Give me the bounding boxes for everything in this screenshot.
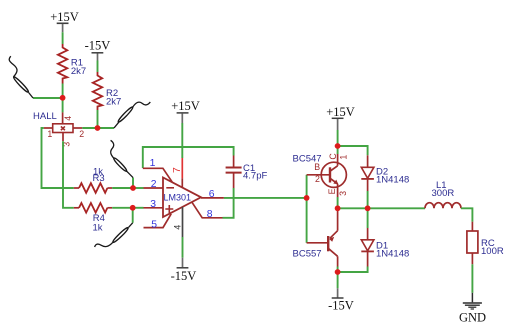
wire HALL pin3 down to R4 row bbox=[63, 141, 74, 208]
capacitor C1 bbox=[226, 156, 268, 189]
-15V supply (R2) bbox=[85, 39, 111, 61]
wire base node up to BC547 base bbox=[306, 175, 308, 198]
svg-text:1: 1 bbox=[150, 158, 156, 169]
wire node to op-amp pin2 bbox=[133, 187, 144, 189]
wire node down to probe 4 bbox=[132, 208, 134, 223]
svg-text:-15V: -15V bbox=[171, 269, 197, 283]
svg-text:7: 7 bbox=[172, 167, 183, 173]
transistor Q1 BC547 bbox=[293, 149, 349, 209]
wire L1 to RC bbox=[461, 208, 472, 221]
-15V supply transistor bbox=[328, 288, 354, 312]
probe squiggle 1 bbox=[9, 56, 33, 98]
diode D1 1N4148 bbox=[361, 208, 409, 266]
svg-text:+15V: +15V bbox=[171, 99, 200, 113]
probe squiggle 2 bbox=[114, 102, 150, 128]
op-amp pin 4 lead bbox=[182, 207, 184, 237]
wire -15V to R2 bbox=[97, 61, 99, 73]
resistor R2 bbox=[93, 72, 122, 110]
svg-text:+15V: +15V bbox=[50, 10, 79, 24]
-15V supply op-amp bbox=[171, 258, 197, 284]
svg-text:B: B bbox=[314, 162, 320, 172]
wire RC to GND bbox=[471, 264, 473, 293]
wire R4 to node bbox=[112, 207, 133, 209]
wire node left to probe bbox=[33, 97, 63, 99]
resistor RC 100R bbox=[467, 222, 504, 265]
resistor R1 bbox=[58, 44, 86, 84]
svg-text:-15V: -15V bbox=[328, 299, 354, 313]
svg-text:E: E bbox=[327, 188, 337, 194]
op-amp pin 1 lead bbox=[143, 158, 173, 182]
HALL sensor X1 bbox=[33, 111, 84, 147]
op-amp pin 3 lead bbox=[144, 207, 163, 209]
inductor L1 300R bbox=[425, 180, 461, 208]
wire node up to probe 3 bbox=[132, 178, 134, 188]
wire node to op-amp pin3 bbox=[133, 207, 144, 209]
probe squiggle 3 bbox=[111, 140, 133, 177]
wire diode node to L1 bbox=[368, 207, 425, 209]
svg-text:-15V: -15V bbox=[85, 39, 111, 53]
svg-text:300R: 300R bbox=[432, 188, 455, 199]
wire C1 to output bbox=[233, 188, 235, 198]
wire D1 bottom to collector node bbox=[338, 267, 368, 273]
diode D2 1N4148 bbox=[361, 155, 409, 191]
svg-text:2k7: 2k7 bbox=[71, 66, 86, 77]
svg-text:4: 4 bbox=[63, 116, 73, 121]
wire node to HALL pin4 bbox=[62, 98, 64, 113]
junction node R2/HALL pin2 bbox=[95, 125, 101, 131]
junction node emitters bbox=[335, 205, 341, 211]
wire R2 to node bbox=[97, 110, 99, 128]
svg-text:2: 2 bbox=[151, 179, 157, 190]
wire emitters to diode node bbox=[338, 207, 368, 209]
op-amp pin 7 lead bbox=[181, 158, 183, 178]
resistor R3 bbox=[74, 167, 112, 193]
resistor R4 bbox=[74, 203, 112, 234]
svg-text:4.7pF: 4.7pF bbox=[243, 171, 267, 182]
svg-text:1N4148: 1N4148 bbox=[376, 175, 409, 186]
svg-text:R3: R3 bbox=[93, 173, 105, 184]
op-amp pin 8 lead bbox=[192, 202, 223, 220]
junction node base bbox=[304, 195, 310, 201]
svg-text:1: 1 bbox=[338, 155, 348, 160]
svg-text:100R: 100R bbox=[481, 246, 504, 257]
svg-text:C: C bbox=[328, 153, 338, 160]
HALL pin 2 lead bbox=[73, 127, 82, 129]
junction node pin2 bbox=[130, 185, 136, 191]
svg-text:HALL: HALL bbox=[33, 111, 57, 122]
top feedback wire pin1 to C1 bbox=[143, 147, 234, 168]
wire base node down to BC557 base bbox=[306, 198, 308, 243]
op-amp pin 5 lead bbox=[144, 214, 172, 231]
op-amp U1 LM301 triangle bbox=[163, 178, 201, 218]
+15V supply transistor bbox=[326, 105, 355, 130]
junction node R1/HALL bbox=[60, 95, 66, 101]
HALL pin 3 lead bbox=[62, 133, 64, 142]
svg-text:+15V: +15V bbox=[326, 105, 355, 119]
junction node diodes/output bbox=[365, 205, 371, 211]
+15V supply op-amp bbox=[171, 99, 200, 123]
svg-text:1N4148: 1N4148 bbox=[376, 249, 409, 260]
+15V supply left bbox=[50, 10, 79, 32]
wire pin4 to -15V bbox=[182, 237, 184, 258]
svg-text:BC557: BC557 bbox=[293, 249, 322, 260]
probe squiggle 4 bbox=[95, 223, 133, 247]
svg-text:3: 3 bbox=[338, 191, 348, 196]
wire output to transistor bases bbox=[224, 197, 307, 199]
HALL pin 1 lead bbox=[44, 127, 53, 129]
svg-text:3: 3 bbox=[150, 199, 156, 210]
svg-text:1k: 1k bbox=[93, 223, 103, 234]
svg-text:LM301: LM301 bbox=[164, 193, 192, 203]
transistor Q2 BC557 bbox=[293, 208, 338, 272]
op-amp pin 2 lead bbox=[144, 187, 163, 189]
wire collector node to -15V bbox=[337, 272, 339, 288]
svg-text:2k7: 2k7 bbox=[106, 97, 121, 108]
junction node collector/D2 bbox=[335, 143, 341, 149]
HALL pin 4 lead bbox=[62, 112, 64, 123]
junction node BC557 collector bbox=[335, 269, 341, 275]
svg-text:4: 4 bbox=[173, 225, 183, 230]
junction node pin3 bbox=[130, 205, 136, 211]
wire R1 to node bbox=[62, 84, 64, 98]
wire HALL pin2 to probe bbox=[82, 127, 114, 129]
op-amp pin 6 output lead bbox=[201, 197, 224, 199]
wire +15V to collector node bbox=[337, 130, 339, 146]
svg-text:6: 6 bbox=[209, 189, 215, 200]
svg-text:2: 2 bbox=[315, 174, 320, 184]
svg-text:2: 2 bbox=[79, 129, 84, 139]
wire D2 to node bbox=[367, 191, 369, 208]
wire node to D2 top bbox=[338, 146, 368, 155]
svg-text:8: 8 bbox=[207, 209, 213, 220]
ground GND bbox=[459, 293, 486, 325]
wire HALL pin1 down to R3 row bbox=[42, 128, 74, 188]
wire +15V to op-amp pin7 bbox=[181, 123, 183, 158]
svg-text:5: 5 bbox=[151, 219, 157, 230]
wire +15V to R1 bbox=[62, 32, 64, 44]
wire pin8 up to output bbox=[223, 198, 234, 218]
wire R3 to node bbox=[112, 187, 133, 189]
svg-text:GND: GND bbox=[459, 310, 486, 324]
svg-text:1: 1 bbox=[47, 129, 52, 139]
